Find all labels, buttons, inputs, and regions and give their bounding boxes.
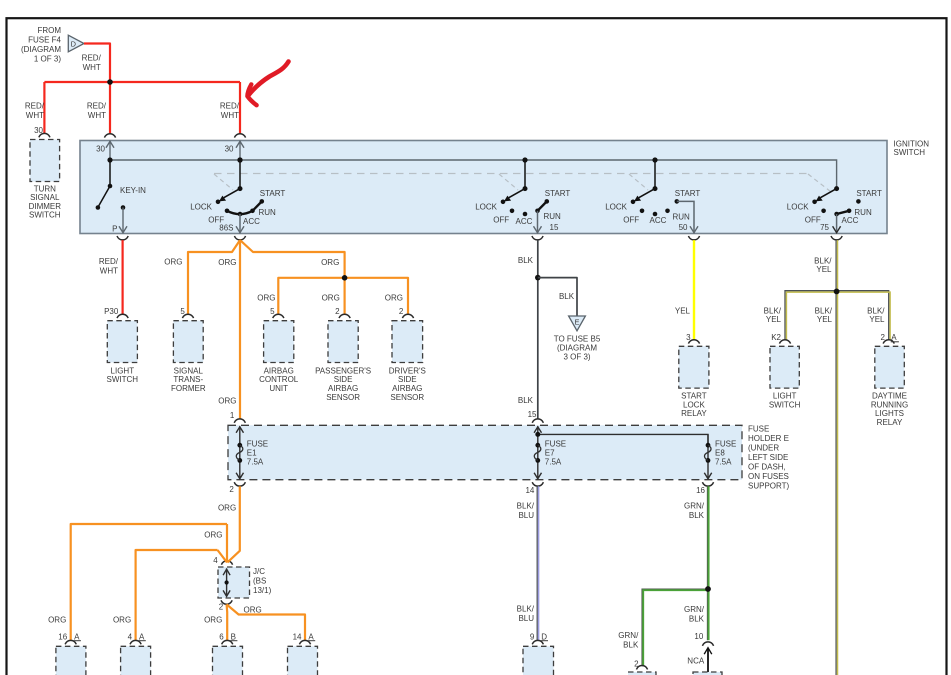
connector arc pin 15 [532, 236, 543, 240]
svg-text:LOCK: LOCK [605, 202, 627, 211]
svg-text:ORG: ORG [218, 503, 236, 512]
wire ORG to driver airbag sensor [345, 278, 408, 315]
svg-text:YEL: YEL [766, 315, 782, 324]
svg-text:FUSE: FUSE [247, 440, 268, 449]
ignition rotary switch 3 [654, 160, 656, 189]
pin 15 exit [537, 211, 539, 234]
ignition switch box [80, 141, 887, 234]
svg-text:BLK: BLK [623, 640, 639, 649]
svg-text:LOCK: LOCK [683, 400, 705, 409]
switch rotor arm [820, 189, 836, 198]
component: LIGHT SWITCH [107, 321, 137, 363]
svg-text:30: 30 [96, 145, 105, 154]
contact START [260, 199, 265, 204]
svg-text:J/C: J/C [253, 567, 265, 576]
fuse E7 [537, 426, 539, 479]
svg-text:50: 50 [679, 223, 688, 232]
svg-text:WHT: WHT [100, 267, 118, 276]
pin 9 D arc [532, 640, 543, 644]
svg-text:15: 15 [550, 223, 559, 232]
svg-text:RED/: RED/ [82, 53, 102, 62]
switch KEY-IN [109, 160, 111, 186]
svg-text:P30: P30 [104, 307, 119, 316]
svg-text:ON FUSES: ON FUSES [748, 472, 789, 481]
svg-text:2: 2 [880, 333, 885, 342]
pin 16 exit arc [702, 482, 713, 486]
svg-text:(DIAGRAM: (DIAGRAM [21, 45, 61, 54]
switch rotor arm [224, 189, 240, 198]
svg-text:YEL: YEL [869, 315, 885, 324]
pin 5 arc [273, 314, 284, 318]
svg-text:LOCK: LOCK [787, 202, 809, 211]
svg-text:4: 4 [128, 633, 133, 642]
svg-text:SUPPORT): SUPPORT) [748, 481, 790, 490]
svg-text:FROM: FROM [37, 26, 61, 35]
svg-text:OFF: OFF [623, 215, 639, 224]
contact ACC [653, 212, 658, 217]
svg-text:SIDE: SIDE [398, 375, 417, 384]
wire BLK/YEL to daytime running lights relay [837, 291, 889, 340]
svg-text:BLK: BLK [518, 396, 534, 405]
svg-text:START: START [681, 392, 707, 401]
svg-text:SIDE: SIDE [334, 375, 353, 384]
svg-text:LIGHTS: LIGHTS [875, 409, 904, 418]
pin 4 arc [221, 561, 232, 565]
svg-text:BLU: BLU [518, 614, 534, 623]
component: FUSE HOLDER E box [228, 425, 742, 479]
svg-text:ACC: ACC [650, 216, 667, 225]
svg-text:RED/: RED/ [87, 101, 107, 110]
contact LOCK [216, 200, 221, 205]
svg-text:(BS: (BS [253, 577, 266, 586]
ignition rotary switch 2 [524, 160, 526, 189]
svg-text:1 OF 3): 1 OF 3) [34, 55, 61, 64]
svg-text:2: 2 [229, 485, 234, 494]
fuse E8 [707, 434, 709, 478]
svg-text:16: 16 [696, 486, 705, 495]
svg-text:AIRBAG: AIRBAG [328, 384, 358, 393]
svg-text:7.5A: 7.5A [247, 458, 264, 467]
svg-text:SIGNAL: SIGNAL [174, 366, 204, 375]
pin 5 arc [182, 314, 193, 318]
pin 86S exit [239, 214, 241, 234]
pin 2 arc [636, 666, 647, 670]
pin 30 connector arc [104, 134, 115, 138]
component: LIGHT SWITCH (K2) [770, 346, 799, 388]
svg-text:BLK/: BLK/ [517, 605, 535, 614]
wire: internal bus 30 [110, 160, 837, 189]
junction [535, 275, 541, 281]
svg-text:SWITCH: SWITCH [29, 211, 61, 220]
contact RUN [535, 209, 540, 214]
svg-text:SENSOR: SENSOR [390, 393, 424, 402]
svg-text:10: 10 [694, 632, 703, 641]
triangle connector E to fuse B5 [569, 316, 586, 331]
wire: dashed link diagonal [499, 174, 518, 190]
triangle connector D from fuse F4 [68, 35, 84, 52]
wire RED/WHT from triangle D [84, 44, 110, 83]
svg-text:UNIT: UNIT [269, 384, 288, 393]
svg-text:YEL: YEL [675, 306, 691, 315]
svg-text:2: 2 [219, 602, 224, 611]
svg-text:DRIVER'S: DRIVER'S [389, 366, 426, 375]
svg-text:3 OF 3): 3 OF 3) [563, 353, 590, 362]
svg-text:RED/: RED/ [220, 101, 240, 110]
component box 14 A [288, 646, 318, 675]
svg-text:RUNNING: RUNNING [871, 400, 908, 409]
svg-text:YEL: YEL [817, 315, 833, 324]
svg-text:WHT: WHT [83, 63, 101, 72]
wire ORG 86S to airbag branch [240, 240, 345, 278]
component: J/C (BS 13/1) junction block [218, 567, 250, 598]
svg-text:LOCK: LOCK [475, 202, 497, 211]
pin 2 arc [402, 314, 413, 318]
svg-text:START: START [545, 189, 571, 198]
junction [342, 275, 348, 281]
svg-text:BLK: BLK [689, 511, 705, 520]
svg-text:30: 30 [225, 145, 234, 154]
svg-text:NCA: NCA [687, 656, 705, 665]
svg-text:ACC: ACC [243, 217, 260, 226]
svg-text:BLK: BLK [559, 292, 575, 301]
svg-text:RUN: RUN [854, 208, 872, 217]
svg-text:14: 14 [293, 633, 302, 642]
junction [705, 586, 711, 592]
component: SIGNAL TRANSFORMER [173, 321, 203, 363]
pin 30 connector arc [39, 133, 50, 137]
pin 14 A arc [299, 640, 310, 644]
contact bridge OFF-ACC-RUN-START [227, 201, 262, 214]
svg-text:ORG: ORG [244, 606, 262, 615]
svg-text:9: 9 [530, 633, 535, 642]
svg-text:(UNDER: (UNDER [748, 443, 779, 452]
svg-text:86S: 86S [219, 224, 233, 233]
svg-text:BLK/: BLK/ [815, 306, 833, 315]
wire RED/WHT drop to turn signal dimmer switch [43, 82, 45, 134]
connector arc pin P [117, 236, 128, 240]
component box 6 B [213, 646, 243, 675]
svg-text:BLK/: BLK/ [867, 306, 885, 315]
pin 15 fuse arc [532, 419, 543, 423]
svg-text:3: 3 [686, 333, 691, 342]
component: START LOCK RELAY [679, 346, 709, 388]
svg-text:LEFT SIDE: LEFT SIDE [748, 453, 788, 462]
svg-text:7.5A: 7.5A [545, 458, 562, 467]
contact ACC [523, 212, 528, 217]
svg-text:WHT: WHT [88, 111, 106, 120]
svg-text:RUN: RUN [673, 213, 691, 222]
contact RUN [665, 209, 670, 214]
svg-text:OFF: OFF [493, 215, 509, 224]
svg-text:FUSE: FUSE [545, 440, 566, 449]
connector arc pin 50 [688, 236, 699, 240]
svg-text:ORG: ORG [218, 396, 236, 405]
contact LOCK [812, 200, 817, 205]
svg-text:BLK: BLK [518, 256, 534, 265]
svg-text:E: E [575, 318, 580, 327]
wire BLK/YEL pin 75 trunk [835, 240, 837, 675]
svg-text:75: 75 [820, 223, 829, 232]
wire: dashed link diagonal [808, 174, 831, 192]
component: PASSENGER&#39;S SIDE AIRBAG SENSOR [328, 321, 358, 363]
svg-text:START: START [856, 189, 882, 198]
svg-text:4: 4 [213, 556, 218, 565]
svg-text:BLU: BLU [518, 511, 534, 520]
svg-text:START: START [675, 189, 701, 198]
component: TURN SIGNAL DIMMER SWITCH [30, 140, 60, 182]
contact OFF [225, 209, 230, 214]
connector arc pin 86S [234, 236, 245, 240]
contact OFF [640, 209, 645, 214]
svg-text:14: 14 [525, 486, 534, 495]
svg-text:FUSE: FUSE [715, 440, 736, 449]
pin 2 exit arc [234, 482, 245, 486]
wire ORG to passenger airbag sensor [344, 278, 346, 315]
wire RED/WHT drop to pin 30 [109, 82, 111, 133]
svg-text:2: 2 [399, 307, 404, 316]
svg-text:LIGHT: LIGHT [773, 392, 797, 401]
svg-text:RED/: RED/ [99, 257, 119, 266]
svg-text:ORG: ORG [204, 530, 222, 539]
svg-text:15: 15 [528, 410, 537, 419]
svg-text:AIRBAG: AIRBAG [392, 384, 422, 393]
pin 30 connector arc [234, 134, 245, 138]
wire RED/WHT pin P to light switch [121, 240, 123, 314]
svg-text:FUSE F4: FUSE F4 [28, 36, 61, 45]
svg-text:DAYTIME: DAYTIME [872, 392, 907, 401]
svg-text:AIRBAG: AIRBAG [264, 366, 294, 375]
component box 9 D [523, 646, 554, 675]
svg-text:ORG: ORG [322, 293, 340, 302]
wire GRN/BLK to pin 10 [706, 589, 708, 640]
svg-text:ORG: ORG [257, 293, 275, 302]
pin 2 exit arc [221, 600, 232, 604]
svg-text:RED/: RED/ [25, 101, 45, 110]
svg-text:5: 5 [270, 307, 275, 316]
pin 6 B arc [222, 640, 233, 644]
svg-text:BLK/: BLK/ [517, 502, 535, 511]
svg-text:SWITCH: SWITCH [769, 400, 801, 409]
svg-text:SWITCH: SWITCH [894, 148, 926, 157]
svg-text:A: A [891, 333, 897, 342]
wire YEL pin 50 to start lock relay [693, 240, 695, 340]
svg-text:PASSENGER'S: PASSENGER'S [315, 366, 371, 375]
junction [834, 289, 840, 295]
wire BLK pin 15 to fuse E7 [537, 240, 539, 419]
svg-text:E8: E8 [715, 449, 725, 458]
wire: dashed link diagonal [214, 174, 233, 190]
wire ORG branch corner down to J/C [226, 524, 228, 562]
contact ACC [238, 212, 243, 217]
svg-text:WHT: WHT [221, 111, 239, 120]
component box (NCA) [693, 672, 722, 675]
svg-text:5: 5 [180, 307, 185, 316]
pin 10 arc [702, 642, 713, 646]
contact ACC [834, 212, 839, 217]
svg-text:ORG: ORG [48, 616, 66, 625]
wire: dashed link diagonal [629, 174, 648, 190]
svg-text:BLK/: BLK/ [814, 256, 832, 265]
wire GRN/BLK branch to pin 2 [642, 589, 707, 665]
svg-text:RELAY: RELAY [877, 418, 903, 427]
contact START [545, 199, 550, 204]
contact OFF [510, 209, 515, 214]
pin 14 exit arc [532, 482, 543, 486]
pin 2 A arc [883, 340, 894, 344]
wire: internal link E7 to E8 [538, 434, 708, 445]
wire: mechanical link (dashed) [214, 173, 808, 175]
wire BLK branch to triangle E [538, 278, 577, 316]
switch rotor arm [509, 189, 525, 198]
svg-text:ORG: ORG [218, 258, 236, 267]
fuse E1 [239, 426, 241, 479]
svg-text:DIMMER: DIMMER [29, 202, 62, 211]
svg-text:ORG: ORG [204, 616, 222, 625]
pin 3 arc [688, 340, 699, 344]
svg-text:E7: E7 [545, 449, 555, 458]
component: DAYTIME RUNNING LIGHTS RELAY [875, 346, 905, 388]
component box 16 A [56, 646, 86, 675]
svg-text:HOLDER E: HOLDER E [748, 434, 789, 443]
pin 75 exit [836, 214, 838, 234]
svg-text:KEY-IN: KEY-IN [120, 186, 146, 195]
junction [107, 79, 113, 85]
wire ORG 86S to signal transformer [188, 240, 240, 314]
svg-text:K2: K2 [771, 333, 781, 342]
wire ORG branch to 4 A [136, 550, 218, 640]
svg-text:13/1): 13/1) [253, 586, 272, 595]
svg-text:OF DASH,: OF DASH, [748, 462, 786, 471]
component box 4 A [121, 646, 151, 675]
pin P exit [122, 208, 124, 234]
svg-text:1: 1 [230, 411, 235, 420]
contact RUN [250, 209, 255, 214]
svg-text:2: 2 [335, 307, 340, 316]
wire ORG J/C to 6 B [226, 604, 229, 640]
svg-text:FORMER: FORMER [171, 384, 206, 393]
svg-text:IGNITION: IGNITION [894, 139, 930, 148]
svg-text:ORG: ORG [385, 293, 403, 302]
wire ORG fuse E1 to J/C pin 4 [227, 486, 239, 562]
svg-text:SIGNAL: SIGNAL [30, 193, 60, 202]
contact START [856, 199, 861, 204]
component: DRIVER&#39;S SIDE AIRBAG SENSOR [392, 321, 423, 363]
svg-text:OFF: OFF [805, 215, 821, 224]
svg-text:GRN/: GRN/ [684, 605, 705, 614]
svg-text:TURN: TURN [34, 184, 56, 193]
svg-text:ACC: ACC [516, 217, 533, 226]
svg-text:TO FUSE B5: TO FUSE B5 [554, 335, 601, 344]
contact bridge ACC-RUN [837, 211, 850, 214]
pin 2 arc [339, 314, 350, 318]
wire ORG J/C to 14 A [227, 604, 305, 640]
pin 16 A arc [65, 640, 76, 644]
component: AIRBAG CONTROL UNIT [264, 321, 294, 363]
wire ORG long branch to 16 A [71, 524, 227, 640]
svg-text:WHT: WHT [26, 111, 44, 120]
wire NCA with up arrow [707, 649, 709, 673]
contact LOCK [631, 200, 636, 205]
wire BLK/BLU fuse E7 to 9 D [536, 486, 538, 640]
contact LOCK [501, 200, 506, 205]
svg-text:P: P [112, 225, 117, 234]
component box (pin 2) [628, 672, 656, 675]
svg-text:GRN/: GRN/ [618, 631, 639, 640]
ignition rotary switch 1 [239, 160, 241, 189]
svg-text:FUSE: FUSE [748, 424, 769, 433]
pin 30 entry [239, 141, 241, 161]
svg-text:ORG: ORG [164, 257, 182, 266]
pin K2 arc [779, 340, 790, 344]
wire ORG diagonal into J/C pin 4 [218, 550, 228, 562]
contact OFF [821, 209, 826, 214]
pin P30 arc [117, 314, 128, 318]
wire ORG 86S to fuse E1 [239, 240, 241, 419]
pin 4 A arc [130, 640, 141, 644]
svg-text:7.5A: 7.5A [715, 458, 732, 467]
wire GRN/BLK fuse E8 trunk [706, 486, 708, 589]
svg-text:LIGHT: LIGHT [111, 366, 135, 375]
svg-text:D: D [71, 39, 76, 48]
wire ORG to airbag control unit [278, 278, 344, 315]
svg-text:BLK: BLK [689, 614, 705, 623]
svg-text:ORG: ORG [321, 258, 339, 267]
connector arc pin 75 [831, 236, 842, 240]
svg-text:GRN/: GRN/ [684, 502, 705, 511]
svg-text:30: 30 [34, 126, 43, 135]
svg-text:SENSOR: SENSOR [326, 393, 360, 402]
svg-text:START: START [260, 189, 286, 198]
svg-text:TRANS-: TRANS- [173, 375, 203, 384]
svg-text:LOCK: LOCK [190, 202, 212, 211]
svg-text:6: 6 [219, 633, 224, 642]
svg-text:(DIAGRAM: (DIAGRAM [557, 344, 597, 353]
svg-text:RUN: RUN [544, 212, 562, 221]
svg-text:CONTROL: CONTROL [259, 375, 299, 384]
svg-text:RUN: RUN [259, 208, 277, 217]
pin 50 exit from START [677, 201, 694, 233]
switch rotor arm [639, 189, 655, 198]
pin 1 arc [234, 419, 245, 423]
contact START [675, 199, 680, 204]
svg-text:BLK/: BLK/ [764, 306, 782, 315]
wire BLK/YEL to light switch K2 [785, 291, 837, 340]
svg-text:RELAY: RELAY [681, 409, 707, 418]
contact bridge START-RUN [538, 201, 547, 210]
svg-text:16: 16 [58, 633, 67, 642]
svg-text:E1: E1 [247, 449, 257, 458]
contact RUN [847, 209, 852, 214]
svg-text:SWITCH: SWITCH [107, 375, 139, 384]
pin 30 entry [109, 141, 111, 161]
wire RED/WHT drop to pin 30 (switch 1) [239, 82, 241, 133]
annotation: hand-drawn red arrow [249, 62, 289, 95]
svg-text:YEL: YEL [816, 265, 832, 274]
wire RED/WHT horizontal bus [44, 81, 240, 83]
svg-text:2: 2 [634, 660, 639, 669]
svg-text:ORG: ORG [113, 616, 131, 625]
